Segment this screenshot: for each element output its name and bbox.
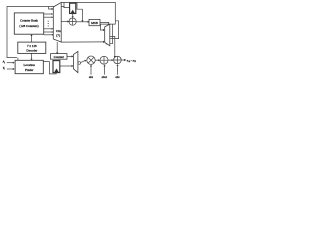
wire: mux M3 side bracket wire xyxy=(110,21,118,39)
op: multiplier X1 (circle times) xyxy=(87,56,95,64)
svg-text:abs1: abs1 xyxy=(102,75,108,79)
wire: arrow jog into mux M1 top input xyxy=(49,7,52,10)
mux M1 (Cin mux, wide side right) xyxy=(53,2,61,42)
svg-text:abs: abs xyxy=(115,75,120,79)
wire: input arrow under adder U3 xyxy=(117,65,119,74)
wire: adder U1 to MSB block xyxy=(76,21,88,23)
register R2 (delay register with clock wedge) xyxy=(53,61,60,73)
svg-text:7 x 128: 7 x 128 xyxy=(27,44,37,48)
svg-text:Yi: Yi xyxy=(3,66,6,71)
svg-text:abs: abs xyxy=(89,75,94,79)
wire: mux M1 output to accumulator adder U1 xyxy=(61,21,67,23)
register R1 (accumulator register with clock wedge) xyxy=(70,3,76,13)
wire: output arrow with label eAi - eYi xyxy=(121,59,124,61)
op: adder U2 (circle plus) xyxy=(100,56,108,64)
svg-text:Decoder: Decoder xyxy=(26,49,38,53)
wire: long line from mux M1 bottom corner to mux M3 lower input xyxy=(61,41,103,43)
node: mux M2 output bubble xyxy=(78,62,81,65)
svg-text:Counter: Counter xyxy=(54,55,65,59)
svg-text:Ai: Ai xyxy=(2,60,6,65)
wire: Counter block to mux M2 top input xyxy=(67,55,72,57)
svg-text:Finder: Finder xyxy=(25,68,34,72)
svg-text:Cin: Cin xyxy=(56,29,61,33)
wire: Location Finder to delay register R2 xyxy=(43,62,56,74)
wire: input arrow under adder U2 xyxy=(104,66,106,75)
block: Location Finder xyxy=(15,60,43,73)
block: 7 x 128 Decoder xyxy=(18,42,46,53)
wire: mux M1 bottom tip down to Counter block xyxy=(56,42,58,53)
op: adder U1 (circle plus accumulator) xyxy=(69,18,76,25)
wire: left feedback loop to Location Finder xyxy=(7,7,70,58)
wire: register R1 to adder U1 xyxy=(72,14,74,17)
wire: register R1 output step-down tap to adder output line xyxy=(77,2,82,20)
mux M3 (right mux, wide side right) xyxy=(105,24,110,46)
wire: top feedback bus from mux M1 corner to right mux M3 xyxy=(61,2,115,30)
wire: adder U2 to adder U3 xyxy=(108,59,112,61)
svg-text:Counter Bank: Counter Bank xyxy=(20,19,38,23)
wire: mux M2 to multiplier xyxy=(81,61,85,63)
block: Counter xyxy=(51,54,67,60)
wire: counter bank to decoder (arrow up) xyxy=(31,35,33,42)
mux M2 (wide side right) xyxy=(73,51,78,72)
svg-text:(128 Counters): (128 Counters) xyxy=(19,24,38,28)
wire: coefficient input arrow under multiplier X1 xyxy=(90,66,92,75)
wire: decoder to Location Finder (arrow down) xyxy=(31,53,33,59)
wire: MSB output down into mux M3 top xyxy=(100,22,109,25)
op: adder U3 (circle plus) xyxy=(114,56,122,64)
svg-text:(7): (7) xyxy=(56,33,60,37)
wire: delay register R2 to mux M2 lower input xyxy=(60,65,72,67)
svg-text:eAi - eYi: eAi - eYi xyxy=(127,58,136,63)
node: vertical ellipsis dots between bank and mux xyxy=(48,21,49,27)
block: Counter Bank (128 Counters) xyxy=(14,13,43,34)
wire: mux M3 output down to adder chain xyxy=(110,36,115,56)
svg-text:Location: Location xyxy=(24,63,36,67)
block: MSB xyxy=(89,19,100,25)
svg-text:MSB: MSB xyxy=(91,21,98,25)
wire: mux M3 wrap-around select stub xyxy=(107,24,113,44)
wire: counter bank output stubs to mux M1 xyxy=(44,13,52,15)
wire: multiplier to adder U2 xyxy=(95,59,98,61)
